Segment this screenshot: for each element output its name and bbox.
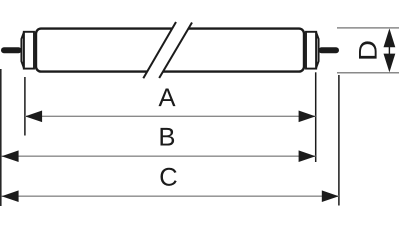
D extension line top bbox=[337, 27, 399, 29]
extension line left outer (pin tip) bbox=[0, 69, 2, 206]
arrow A left bbox=[25, 111, 42, 123]
label A bbox=[159, 89, 176, 107]
arrow C right bbox=[322, 190, 339, 202]
arrow B right bbox=[299, 150, 316, 162]
label D (rotated) bbox=[359, 41, 377, 58]
D dimension connector line bbox=[388, 44, 390, 58]
left cap bbox=[21, 33, 23, 68]
extension line right inner (cap face) bbox=[315, 72, 317, 162]
arrow D down bbox=[384, 54, 396, 73]
right pin bbox=[319, 47, 340, 53]
arrow D up bbox=[384, 28, 396, 47]
break line 2 bbox=[159, 23, 192, 79]
right ring bbox=[306, 32, 316, 69]
extension line right outer (pin tip) bbox=[338, 75, 340, 206]
arrow B left bbox=[2, 150, 19, 162]
D extension line bottom bbox=[337, 72, 399, 74]
tube body bbox=[36, 29, 304, 72]
break line 1 bbox=[143, 22, 176, 78]
dimension line A bbox=[25, 115, 316, 117]
dimension line B bbox=[2, 155, 316, 157]
label B bbox=[160, 128, 174, 146]
arrow A right bbox=[299, 111, 316, 123]
extension line left inner (cap face) bbox=[24, 77, 26, 136]
right cap bbox=[316, 33, 318, 68]
break erase quad bbox=[143, 22, 192, 78]
label C bbox=[160, 168, 176, 186]
left ring bbox=[24, 32, 34, 69]
dimension line C bbox=[2, 195, 339, 197]
left pin bbox=[1, 47, 22, 53]
arrow C left bbox=[2, 190, 19, 202]
